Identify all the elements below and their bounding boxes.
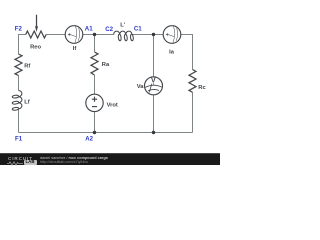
wire junction to Ia meter bbox=[154, 34, 164, 36]
inductor Lf bbox=[12, 91, 22, 111]
wire L' to junction C1 bbox=[132, 34, 154, 36]
svg-text:A2: A2 bbox=[85, 135, 93, 142]
watermark text line 1 bbox=[40, 156, 108, 160]
resistor Rf bbox=[15, 54, 22, 76]
svg-text:Vrot: Vrot bbox=[107, 102, 118, 108]
wire If meter to node A1 bbox=[83, 34, 95, 36]
node A1 junction dot bbox=[93, 33, 96, 36]
wire node A1 down to Ra bbox=[94, 35, 96, 53]
wire Ia meter to top-right corner and down to Rc bbox=[181, 35, 193, 70]
wire junction down to Va voltmeter bbox=[153, 35, 155, 78]
node A2 junction dot bbox=[93, 131, 96, 134]
svg-text:F1: F1 bbox=[15, 136, 23, 143]
svg-text:Ia: Ia bbox=[169, 50, 175, 56]
wire Reo to If meter bbox=[46, 34, 65, 36]
voltmeter Va bbox=[145, 77, 163, 95]
svg-text:L': L' bbox=[120, 22, 126, 28]
watermark bar bbox=[0, 153, 220, 165]
svg-text:F2: F2 bbox=[15, 26, 23, 33]
wire Vrot to bottom rail node A2 bbox=[94, 112, 96, 133]
wire node A1 to L' bbox=[95, 34, 114, 36]
wire Va voltmeter to bottom rail bbox=[153, 95, 155, 133]
svg-text:Rc: Rc bbox=[198, 85, 206, 91]
voltage source Vrot bbox=[86, 94, 103, 111]
watermark text line 2 bbox=[40, 160, 88, 164]
svg-text:Ra: Ra bbox=[102, 62, 110, 68]
svg-text:Lf: Lf bbox=[24, 100, 30, 106]
svg-text:Va: Va bbox=[137, 84, 145, 90]
inductor L' bbox=[114, 31, 134, 41]
resistor Reo (rheostat with wiper arrow) bbox=[26, 15, 46, 38]
CircuitLab logo bbox=[8, 156, 33, 161]
svg-text:If: If bbox=[73, 46, 77, 52]
resistor Rc bbox=[189, 70, 196, 93]
svg-text:V: V bbox=[151, 78, 156, 85]
wire left side Lf to F1 corner bbox=[18, 109, 20, 133]
wire top-left F2 corner to Reo bbox=[19, 35, 26, 55]
ammeter If bbox=[65, 26, 83, 44]
wire Ra to Vrot bbox=[94, 75, 96, 94]
svg-text:C2: C2 bbox=[105, 26, 113, 33]
svg-text:C1: C1 bbox=[134, 26, 142, 33]
svg-text:Reo: Reo bbox=[30, 44, 41, 50]
wire Rc to bottom rail bbox=[192, 92, 194, 132]
junction dot Va at bottom rail bbox=[152, 131, 155, 134]
junction dot at C1/Va branch bbox=[152, 33, 155, 36]
svg-text:A1: A1 bbox=[85, 25, 93, 32]
svg-text:Rf: Rf bbox=[24, 63, 30, 69]
ammeter Ia bbox=[163, 26, 181, 44]
wire left side Rf to Lf bbox=[18, 76, 20, 91]
wire bottom rail bbox=[19, 132, 193, 134]
resistor Ra bbox=[91, 52, 98, 75]
